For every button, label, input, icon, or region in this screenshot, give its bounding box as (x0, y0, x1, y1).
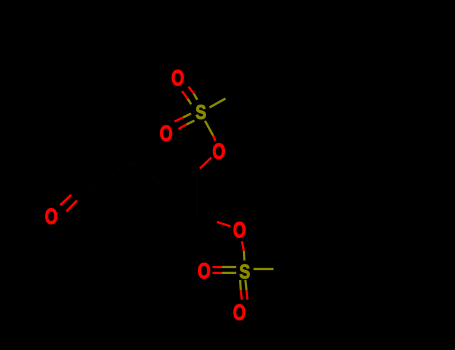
S2=O bottom double bond (240, 280, 247, 300)
bond C4-O ester1 (200, 158, 211, 169)
atom O left of S1 (160, 122, 173, 147)
bond O ester2-S2 (242, 241, 245, 260)
svg-text:O: O (160, 122, 173, 147)
svg-text:O: O (233, 219, 246, 244)
svg-text:O: O (233, 301, 246, 326)
atom O left of S2 (198, 260, 211, 285)
atom S1 (195, 100, 206, 123)
svg-text:S: S (195, 100, 206, 123)
wire carbon skeleton C1-C2-C3-C4-C5 (near-invisible) (80, 162, 197, 216)
atom O top of S1 (171, 67, 184, 92)
svg-text:O: O (45, 205, 58, 230)
atom S2 (239, 260, 250, 283)
bond S1-O ester1 (205, 121, 215, 141)
atom O ketone (45, 205, 58, 230)
svg-text:O: O (198, 260, 211, 285)
atom O ester2 (233, 219, 246, 244)
S2=O left double bond (213, 267, 237, 273)
atom O bottom of S2 (233, 301, 246, 326)
svg-text:S: S (239, 260, 250, 283)
atom O ester1 (212, 140, 225, 165)
ketone C=O double bond (60, 195, 77, 212)
S1=O top double bond (182, 87, 197, 105)
bond S1-CH3 (210, 99, 226, 108)
bond S2-CH3 (254, 268, 274, 270)
S1=O left double bond (175, 114, 195, 130)
svg-text:O: O (212, 140, 225, 165)
bond C5-O ester2 (217, 222, 231, 226)
svg-text:O: O (171, 67, 184, 92)
